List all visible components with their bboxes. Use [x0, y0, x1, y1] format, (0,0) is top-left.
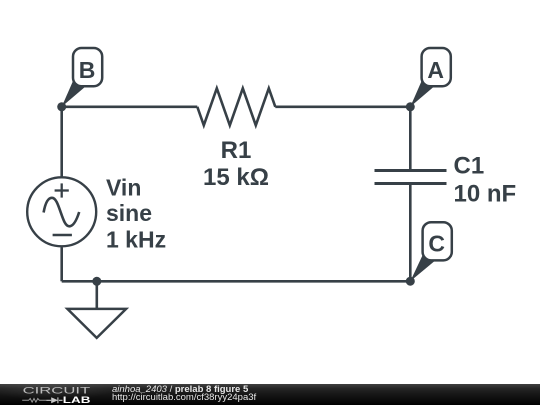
- svg-text:A: A: [427, 57, 444, 83]
- capacitor C1: [375, 171, 447, 184]
- wire left vertical top (B to source): [60, 107, 63, 177]
- footer caption line 2: [112, 392, 256, 403]
- voltage source V1 circle: [27, 177, 96, 246]
- node C flag box: [423, 222, 452, 260]
- svg-text:15 kΩ: 15 kΩ: [203, 164, 269, 191]
- wire top-left B to resistor: [62, 106, 198, 109]
- node C flag pointer: [410, 255, 434, 281]
- svg-text:10 nF: 10 nF: [454, 181, 517, 208]
- node A flag pointer: [410, 81, 433, 107]
- voltage source minus sign: [53, 234, 72, 237]
- logo diode: [46, 397, 62, 403]
- resistor R1: [197, 88, 275, 125]
- wire left vertical bottom (source to bottom wire): [60, 248, 63, 282]
- ground stub wire: [96, 281, 99, 309]
- footer bar: [0, 384, 540, 405]
- ground symbol: [67, 309, 126, 338]
- svg-text:CIRCUIT: CIRCUIT: [23, 386, 92, 396]
- svg-text:B: B: [79, 57, 96, 83]
- svg-text:Vin: Vin: [106, 175, 141, 201]
- svg-text:1 kHz: 1 kHz: [106, 227, 166, 253]
- wire capacitor to node C: [409, 185, 412, 281]
- svg-text:R1: R1: [221, 137, 252, 164]
- CircuitLab logo: [0, 384, 100, 405]
- svg-text:LAB: LAB: [63, 395, 91, 405]
- wire resistor to node A: [275, 106, 410, 109]
- logo resistor squiggle: [22, 399, 46, 403]
- voltage source plus sign: [55, 183, 69, 197]
- node dot C: [406, 277, 415, 286]
- node dot A: [406, 102, 415, 111]
- wire bottom: [62, 280, 411, 283]
- node dot B: [57, 102, 66, 111]
- ground junction dot: [92, 277, 101, 286]
- voltage source sine wave: [44, 198, 80, 227]
- node A flag box: [422, 48, 451, 86]
- svg-text:sine: sine: [106, 200, 152, 226]
- node B flag box: [73, 48, 102, 86]
- footer caption line 1: [112, 384, 248, 395]
- svg-text:C1: C1: [454, 153, 485, 180]
- node B flag pointer: [62, 81, 85, 107]
- svg-text:C: C: [428, 231, 445, 257]
- wire node A down to capacitor: [409, 107, 412, 169]
